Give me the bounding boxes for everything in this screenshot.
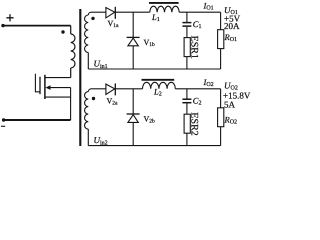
diode V1a bbox=[106, 7, 119, 29]
channel bar bbox=[44, 75, 46, 99]
source vertical to bottom rail bbox=[70, 88, 72, 120]
gate lead bbox=[35, 74, 40, 92]
labels UO2 +15.8V 5A bbox=[223, 81, 251, 110]
gate bar bbox=[39, 77, 41, 95]
wire bottom rail of primary bbox=[4, 119, 71, 121]
diode V2b bbox=[127, 114, 155, 146]
body stub with arrow bbox=[50, 87, 71, 89]
label Uin1 bbox=[94, 59, 108, 71]
wire bottom rail 2 bbox=[88, 145, 220, 147]
transformer secondary winding 2 bbox=[85, 89, 91, 146]
drain stub bbox=[45, 77, 71, 79]
resistor ESR2 bbox=[184, 112, 199, 145]
node + (positive input terminal) bbox=[1, 14, 13, 27]
wire top rail 1 (secondary to diode V1a) bbox=[91, 11, 106, 13]
source stub bbox=[45, 96, 71, 98]
primary polarity dot bbox=[61, 30, 64, 33]
transformer secondary winding 1 bbox=[85, 12, 91, 69]
wire top rail 1 (V1a to L1) bbox=[115, 11, 150, 13]
transformer primary winding N1 bbox=[71, 26, 75, 78]
capacitor C2 bbox=[182, 89, 201, 114]
secondary 1 polarity dot bbox=[91, 17, 94, 20]
wire top rail 2 (L2 to output corner) bbox=[175, 88, 220, 90]
node - (negative input terminal) bbox=[1, 118, 5, 126]
wire top rail 2 (V2a to L2) bbox=[115, 88, 142, 90]
resistor ESR1 bbox=[184, 36, 199, 69]
transistor Q1 (MOSFET) bbox=[35, 74, 70, 120]
labels UO1 +5V 20A bbox=[224, 5, 241, 31]
svg-text:20A: 20A bbox=[224, 21, 240, 31]
wire from + terminal to primary winding top bbox=[3, 25, 71, 27]
transformer core bbox=[79, 9, 81, 146]
resistor RO2 bbox=[218, 89, 237, 146]
wire top rail 2 (secondary to diode V2a) bbox=[91, 88, 106, 90]
svg-text:ESR1: ESR1 bbox=[188, 36, 199, 59]
inductor L1 bbox=[149, 3, 179, 23]
secondary 2 polarity dot bbox=[92, 97, 95, 100]
svg-text:5A: 5A bbox=[224, 99, 236, 109]
wire bottom rail 1 bbox=[88, 68, 220, 70]
node junction V1b top bbox=[132, 12, 134, 37]
node junction V2b top bbox=[132, 89, 134, 114]
capacitor C1 bbox=[182, 12, 201, 37]
inductor L2 bbox=[142, 80, 176, 98]
resistor RO1 bbox=[218, 12, 237, 69]
wire top rail 1 (L1 to output corner) bbox=[179, 11, 220, 13]
diode V1b bbox=[127, 37, 155, 69]
diode V2a bbox=[106, 83, 118, 106]
svg-text:ESR2: ESR2 bbox=[188, 112, 199, 135]
